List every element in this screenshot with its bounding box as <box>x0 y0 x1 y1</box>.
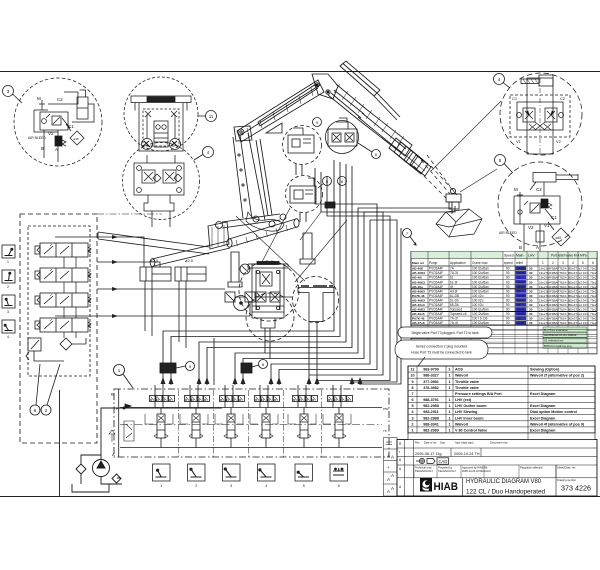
svg-text:1: 1 <box>160 484 162 488</box>
svg-text:ø2.0: ø2.0 <box>150 258 159 263</box>
svg-text:T5: T5 <box>383 429 387 433</box>
svg-text:Hose Port T3 must be connected: Hose Port T3 must be connected to tank <box>411 351 472 355</box>
svg-text:PVC6A4F: PVC6A4F <box>429 271 443 275</box>
svg-text:Slewing (Option): Slewing (Option) <box>530 368 560 372</box>
svg-text:Prepared by: Prepared by <box>438 466 453 470</box>
svg-text:72e2: 72e2 <box>576 317 583 321</box>
svg-text:982-2988: 982-2988 <box>423 416 439 420</box>
svg-text:3: 3 <box>230 484 232 488</box>
svg-text:Walvoil: Walvoil <box>455 374 468 378</box>
svg-text:62/4: 62/4 <box>561 289 567 293</box>
svg-text:A: A <box>391 486 394 491</box>
svg-text:65-D6: 65-D6 <box>450 303 459 307</box>
svg-text:90: 90 <box>506 280 510 284</box>
svg-text:4: 4 <box>265 484 267 488</box>
svg-text:6L: 6L <box>450 276 454 280</box>
svg-text:100 l2u/6an: 100 l2u/6an <box>472 312 489 316</box>
svg-text:90: 90 <box>506 267 510 271</box>
svg-text:7A-3f: 7A-3f <box>450 271 458 275</box>
svg-text:Appr (date sign): Appr (date sign) <box>455 441 474 445</box>
svg-text:ø45: ø45 <box>74 137 80 141</box>
svg-text:PVC6A4F: PVC6A4F <box>429 312 443 316</box>
svg-text:V2: V2 <box>556 139 562 144</box>
svg-text:AB-46o3: AB-46o3 <box>412 303 425 307</box>
svg-text:1: 1 <box>542 261 544 265</box>
svg-text:Sign: Sign <box>440 441 446 445</box>
svg-text:B: B <box>111 392 114 397</box>
svg-text:6L-3f: 6L-3f <box>450 280 457 284</box>
svg-text:62/4: 62/4 <box>561 276 567 280</box>
svg-text:988-3791: 988-3791 <box>423 398 439 402</box>
svg-text:5: 5 <box>411 404 413 408</box>
svg-text:ø45: ø45 <box>556 236 562 240</box>
svg-text:2005-06-17 11g: 2005-06-17 11g <box>415 452 442 456</box>
svg-text:19e2: 19e2 <box>539 267 546 271</box>
svg-text:LHV Outher boom: LHV Outher boom <box>455 404 487 408</box>
svg-text:72e2: 72e2 <box>576 267 583 271</box>
svg-text:6: 6 <box>338 484 340 488</box>
svg-text:AB-46K3: AB-46K3 <box>412 308 425 312</box>
svg-text:2005-10-24 HYDRAULIC: 2005-10-24 HYDRAULIC <box>462 469 491 473</box>
svg-text:72e2: 72e2 <box>576 312 583 316</box>
svg-text:A: A <box>387 489 390 494</box>
svg-text:PVC6A4F: PVC6A4F <box>429 289 443 293</box>
svg-text:30: 30 <box>529 317 533 321</box>
svg-text:30: 30 <box>529 276 533 280</box>
svg-text:10: 10 <box>410 374 414 378</box>
svg-text:A: A <box>391 473 394 478</box>
svg-text:90: 90 <box>506 285 510 289</box>
svg-text:1: 1 <box>448 429 450 433</box>
svg-text:72e2: 72e2 <box>576 289 583 293</box>
svg-text:C2: C2 <box>536 187 542 192</box>
svg-text:PVC6A4F: PVC6A4F <box>429 280 443 284</box>
svg-text:Dbal option Motion control: Dbal option Motion control <box>530 410 577 414</box>
svg-text:6: 6 <box>592 261 594 265</box>
svg-text:983-9799: 983-9799 <box>423 368 439 372</box>
svg-text:AIR BLEED: AIR BLEED <box>28 136 46 140</box>
svg-text:34/35: 34/35 <box>517 285 525 289</box>
svg-text:Series connection 2 plug moun: Series connection 2 plug mounted <box>416 345 467 349</box>
svg-text:Port relief valve M A MPa: Port relief valve M A MPa <box>551 254 587 258</box>
svg-text:72e2: 72e2 <box>576 294 583 298</box>
svg-text:34/35: 34/35 <box>517 308 525 312</box>
svg-text:LHV: LHV <box>528 254 535 258</box>
svg-text:V2: V2 <box>528 225 534 230</box>
svg-text:Excel Diagram: Excel Diagram <box>530 404 556 408</box>
svg-text:AB-46/: AB-46/ <box>412 276 422 280</box>
svg-text:5: 5 <box>303 484 305 488</box>
svg-text:1: 1 <box>411 429 413 433</box>
svg-text:1: 1 <box>448 404 450 408</box>
svg-text:19e2: 19e2 <box>539 271 546 275</box>
svg-text:19e2: 19e2 <box>539 321 546 325</box>
svg-text:Technical resp: Technical resp <box>415 466 432 470</box>
svg-text:Regulation affected: Regulation affected <box>520 466 543 470</box>
svg-text:72e2: 72e2 <box>576 308 583 312</box>
svg-text:PA7K-46: PA7K-46 <box>412 294 425 298</box>
svg-text:AB-46K3: AB-46K3 <box>412 289 425 293</box>
svg-text:C1: C1 <box>551 215 557 220</box>
svg-text:speed: speed <box>504 261 513 265</box>
svg-text:Rev: Rev <box>415 441 420 445</box>
svg-text:HYDRAULIC DIAGRAM V80: HYDRAULIC DIAGRAM V80 <box>466 478 542 485</box>
svg-text:HIAB: HIAB <box>434 481 459 493</box>
svg-text:6L-DB: 6L-DB <box>450 294 459 298</box>
svg-text:A: A <box>536 245 539 250</box>
svg-text:3: 3 <box>562 261 564 265</box>
svg-text:72e2: 72e2 <box>576 303 583 307</box>
svg-text:Drawing number: Drawing number <box>557 478 576 482</box>
svg-text:34/35: 34/35 <box>517 294 525 298</box>
svg-text:PVC6A4F: PVC6A4F <box>429 303 443 307</box>
svg-text:Pump: Pump <box>429 261 438 265</box>
svg-text:30: 30 <box>529 271 533 275</box>
svg-text:62/4: 62/4 <box>561 312 567 316</box>
svg-text:62/4: 62/4 <box>561 303 567 307</box>
svg-text:73e2: 73e2 <box>590 308 597 312</box>
svg-text:100 l2u/6an: 100 l2u/6an <box>472 289 489 293</box>
svg-text:1: 1 <box>448 416 450 420</box>
svg-text:73e2: 73e2 <box>590 289 597 293</box>
svg-text:ø2.0: ø2.0 <box>185 258 194 263</box>
svg-text:Pressure settings B/A Port: Pressure settings B/A Port <box>455 392 502 396</box>
svg-text:19e2: 19e2 <box>539 303 546 307</box>
svg-text:PVC6A4F: PVC6A4F <box>429 267 443 271</box>
svg-text:3: 3 <box>411 416 413 420</box>
svg-text:377-0981: 377-0981 <box>423 380 439 384</box>
svg-text:2: 2 <box>411 422 413 426</box>
svg-text:982-2989: 982-2989 <box>423 429 439 433</box>
svg-text:30: 30 <box>529 285 533 289</box>
svg-text:Application: Application <box>450 261 466 265</box>
svg-text:100 l/2u: 100 l/2u <box>472 303 484 307</box>
svg-text:34/35: 34/35 <box>517 267 525 271</box>
svg-text:19e2: 19e2 <box>539 317 546 321</box>
svg-text:122 CL / Duo Handoperated: 122 CL / Duo Handoperated <box>466 489 546 496</box>
svg-text:Crane max: Crane max <box>472 261 488 265</box>
svg-text:BOM-formattning avg: BOM-formattning avg <box>544 344 572 348</box>
svg-text:+: + <box>387 465 390 470</box>
svg-text:1: 1 <box>448 368 450 372</box>
svg-text:C2: C2 <box>560 96 566 101</box>
svg-text:90: 90 <box>506 294 510 298</box>
svg-text:4f: 4f <box>450 285 453 289</box>
svg-text:34/35: 34/35 <box>517 312 525 316</box>
svg-text:V1: V1 <box>516 139 522 144</box>
svg-text:PVC6A4F: PVC6A4F <box>429 276 443 280</box>
svg-text:90: 90 <box>506 289 510 293</box>
svg-text:Walvoil 2f (alternative of: Walvoil 2f (alternative of pos 2) <box>530 374 585 378</box>
svg-text:62/4: 62/4 <box>561 271 567 275</box>
svg-text:62/4: 62/4 <box>561 321 567 325</box>
svg-text:AB-46K3: AB-46K3 <box>412 280 425 284</box>
svg-text:P50: P50 <box>383 407 389 411</box>
svg-text:PVC6A4F: PVC6A4F <box>429 294 443 298</box>
svg-text:988-3327: 988-3327 <box>423 374 439 378</box>
svg-text:AB-46K: AB-46K <box>412 267 424 271</box>
svg-text:100 l2u/6an: 100 l2u/6an <box>472 321 489 325</box>
svg-text:A: A <box>391 455 394 460</box>
svg-text:30: 30 <box>529 298 533 302</box>
svg-text:V 80 Control Valve: V 80 Control Valve <box>455 429 487 433</box>
svg-text:Throttle valve: Throttle valve <box>455 386 479 390</box>
svg-text:Walvoil: Walvoil <box>455 422 468 426</box>
svg-text:A: A <box>55 147 58 152</box>
svg-text:Approved by HIAB AB: Approved by HIAB AB <box>462 466 488 470</box>
svg-text:90: 90 <box>506 276 510 280</box>
svg-text:2: 2 <box>195 484 197 488</box>
svg-text:100 l2u/6an: 100 l2u/6an <box>472 271 489 275</box>
svg-text:AB-46o: AB-46o <box>412 285 423 289</box>
svg-text:30: 30 <box>529 308 533 312</box>
svg-text:35: 35 <box>517 289 521 293</box>
svg-text:PA7K-46: PA7K-46 <box>412 317 425 321</box>
svg-text:2005-10-24 TH: 2005-10-24 TH <box>454 452 480 456</box>
svg-text:Document resp: Document resp <box>490 441 508 445</box>
svg-text:TECHNOLOGY: TECHNOLOGY <box>415 469 433 473</box>
svg-text:30: 30 <box>529 321 533 325</box>
svg-text:73e2: 73e2 <box>590 267 597 271</box>
svg-text:30: 30 <box>529 303 533 307</box>
svg-text:Walvoil 4f (alternative of: Walvoil 4f (alternative of pos 9) <box>530 422 585 426</box>
svg-text:19e2: 19e2 <box>539 294 546 298</box>
svg-text:3: 3 <box>7 310 9 314</box>
svg-text:72e2: 72e2 <box>576 280 583 284</box>
svg-text:Topseed-c6: Topseed-c6 <box>450 312 467 316</box>
svg-text:100 l2u/6an: 100 l2u/6an <box>472 308 489 312</box>
svg-text:B: B <box>519 245 522 250</box>
svg-text:34/35: 34/35 <box>517 271 525 275</box>
svg-text:PVC6A4F: PVC6A4F <box>429 308 443 312</box>
svg-text:M: M <box>514 187 518 192</box>
svg-text:19e2: 19e2 <box>539 298 546 302</box>
svg-text:1: 1 <box>448 386 450 390</box>
svg-text:CAD: CAD <box>439 459 448 464</box>
svg-text:30: 30 <box>529 294 533 298</box>
svg-text:73e2: 73e2 <box>590 271 597 275</box>
svg-text:73e2: 73e2 <box>590 298 597 302</box>
svg-text:30: 30 <box>529 312 533 316</box>
svg-text:90: 90 <box>506 321 510 325</box>
svg-text:4: 4 <box>7 335 9 339</box>
svg-text:35: 35 <box>517 303 521 307</box>
svg-text:100 l2u/6an: 100 l2u/6an <box>472 276 489 280</box>
svg-text:100 l 6. D6: 100 l 6. D6 <box>472 317 488 321</box>
svg-text:11: 11 <box>209 114 214 119</box>
svg-text:Topseed: Topseed <box>450 308 462 312</box>
svg-text:72e2: 72e2 <box>576 276 583 280</box>
svg-text:35: 35 <box>517 276 521 280</box>
svg-text:62/4: 62/4 <box>561 317 567 321</box>
svg-text:62/4: 62/4 <box>561 285 567 289</box>
svg-text:5: 5 <box>582 261 584 265</box>
svg-text:100 l2u/6an: 100 l2u/6an <box>472 285 489 289</box>
svg-text:100 l/2u: 100 l/2u <box>472 294 484 298</box>
svg-text:Date of iss: Date of iss <box>424 441 437 445</box>
svg-text:62/4: 62/4 <box>561 280 567 284</box>
svg-text:TECHNOLOGY: TECHNOLOGY <box>438 469 456 473</box>
svg-text:LHV Inner boom: LHV Inner boom <box>455 416 484 420</box>
svg-text:PVC6A4F: PVC6A4F <box>429 298 443 302</box>
svg-text:B: B <box>41 146 44 151</box>
svg-text:A: A <box>112 452 115 457</box>
svg-text:73e2: 73e2 <box>590 294 597 298</box>
svg-text:19e2: 19e2 <box>539 285 546 289</box>
svg-text:983-2911: 983-2911 <box>423 410 438 414</box>
svg-text:9: 9 <box>411 380 413 384</box>
svg-text:relief: relief <box>516 261 523 265</box>
svg-text:C1: C1 <box>512 96 518 101</box>
svg-text:Main rel: Main rel <box>412 261 424 265</box>
svg-text:PVC6A4F: PVC6A4F <box>429 285 443 289</box>
svg-text:90: 90 <box>506 308 510 312</box>
svg-text:100 l2u/6an: 100 l2u/6an <box>472 267 489 271</box>
svg-text:19e2: 19e2 <box>539 289 546 293</box>
svg-text:A: A <box>387 477 390 482</box>
svg-text:AB-46K3: AB-46K3 <box>412 298 425 302</box>
svg-text:Throttle valve: Throttle valve <box>455 380 479 384</box>
svg-text:90: 90 <box>506 298 510 302</box>
svg-text:Identifierad on RA cabine: Identifierad on RA cabine <box>544 333 577 337</box>
svg-text:73e2: 73e2 <box>590 317 597 321</box>
svg-text:Excel Diagram: Excel Diagram <box>530 392 556 396</box>
svg-text:Main: Main <box>516 254 523 258</box>
svg-text:19e2: 19e2 <box>539 276 546 280</box>
svg-text:1: 1 <box>448 410 450 414</box>
svg-text:73e2: 73e2 <box>590 280 597 284</box>
svg-text:72e2: 72e2 <box>576 285 583 289</box>
svg-text:30: 30 <box>529 289 533 293</box>
svg-text:XL relevant rev: XL relevant rev <box>544 339 564 343</box>
svg-text:62/4: 62/4 <box>561 267 567 271</box>
svg-text:4d-3f: 4d-3f <box>450 289 457 293</box>
svg-text:AB-46o5: AB-46o5 <box>412 312 425 316</box>
svg-text:62/4: 62/4 <box>561 308 567 312</box>
svg-text:73e2: 73e2 <box>590 321 597 325</box>
svg-text:988-3341: 988-3341 <box>423 422 439 426</box>
svg-text:1: 1 <box>7 260 9 264</box>
svg-text:AB-47o6: AB-47o6 <box>412 321 425 325</box>
svg-text:62/4: 62/4 <box>561 298 567 302</box>
svg-text:V2: V2 <box>48 131 54 136</box>
svg-text:AB-46K3: AB-46K3 <box>412 271 425 275</box>
svg-text:LHV Slewing: LHV Slewing <box>455 410 477 414</box>
svg-text:11: 11 <box>411 368 415 372</box>
svg-text:373 4226: 373 4226 <box>561 486 591 493</box>
svg-text:6L-Db: 6L-Db <box>450 298 459 302</box>
svg-text:72e2: 72e2 <box>576 298 583 302</box>
svg-text:C2: C2 <box>57 97 63 102</box>
svg-text:19e2: 19e2 <box>539 308 546 312</box>
svg-text:Single valve Port T3 plugged.: Single valve Port T3 plugged. Port T2 to… <box>411 331 479 335</box>
svg-text:1: 1 <box>448 380 450 384</box>
svg-text:4: 4 <box>572 261 574 265</box>
svg-text:73e2: 73e2 <box>590 285 597 289</box>
svg-text:19e2: 19e2 <box>539 312 546 316</box>
svg-text:90: 90 <box>506 303 510 307</box>
svg-text:100 l2u/6an: 100 l2u/6an <box>472 280 489 284</box>
svg-text:2: 2 <box>7 285 9 289</box>
svg-text:34/35: 34/35 <box>517 298 525 302</box>
svg-text:6: 6 <box>411 398 413 402</box>
svg-text:AOS: AOS <box>455 368 464 372</box>
svg-text:1: 1 <box>448 374 450 378</box>
svg-text:Sheet/Draw. rev: Sheet/Draw. rev <box>557 466 576 470</box>
svg-text:35: 35 <box>517 317 521 321</box>
svg-text:7A-4f: 7A-4f <box>450 321 458 325</box>
svg-text:100 l/2u: 100 l/2u <box>472 298 484 302</box>
svg-text:Excel Diagram: Excel Diagram <box>530 429 556 433</box>
svg-text:PVC6A4F: PVC6A4F <box>429 317 443 321</box>
svg-text:A: A <box>387 454 390 459</box>
svg-text:34/35: 34/35 <box>517 321 525 325</box>
svg-text:73e2: 73e2 <box>590 303 597 307</box>
svg-text:7A-3f: 7A-3f <box>450 317 458 321</box>
svg-text:34/35: 34/35 <box>517 280 525 284</box>
svg-text:V1: V1 <box>544 223 550 228</box>
svg-text:90: 90 <box>506 271 510 275</box>
svg-text:19e2: 19e2 <box>539 280 546 284</box>
svg-text:LHV (ext): LHV (ext) <box>455 398 472 402</box>
svg-text:73e2: 73e2 <box>590 276 597 280</box>
svg-text:M: M <box>37 96 41 101</box>
svg-text:1: 1 <box>448 398 450 402</box>
svg-text:90: 90 <box>506 317 510 321</box>
svg-text:7: 7 <box>411 392 413 396</box>
svg-text:72e2: 72e2 <box>576 321 583 325</box>
svg-text:30: 30 <box>529 267 533 271</box>
svg-text:PVC6A4F: PVC6A4F <box>429 321 443 325</box>
svg-text:62/4: 62/4 <box>561 294 567 298</box>
svg-text:C1: C1 <box>68 124 74 129</box>
svg-text:73e2: 73e2 <box>590 312 597 316</box>
svg-text:982-2988: 982-2988 <box>423 404 439 408</box>
svg-text:30: 30 <box>529 280 533 284</box>
svg-text:Excel Diagram: Excel Diagram <box>530 416 556 420</box>
svg-text:2: 2 <box>552 261 554 265</box>
svg-text:Speed: Speed <box>504 254 514 258</box>
svg-text:378-3982: 378-3982 <box>423 386 439 390</box>
svg-text:AIR BLEED: AIR BLEED <box>499 231 517 235</box>
svg-text:90: 90 <box>506 312 510 316</box>
svg-text:72e2: 72e2 <box>576 271 583 275</box>
svg-text:1: 1 <box>448 422 450 426</box>
svg-text:8: 8 <box>411 386 413 390</box>
